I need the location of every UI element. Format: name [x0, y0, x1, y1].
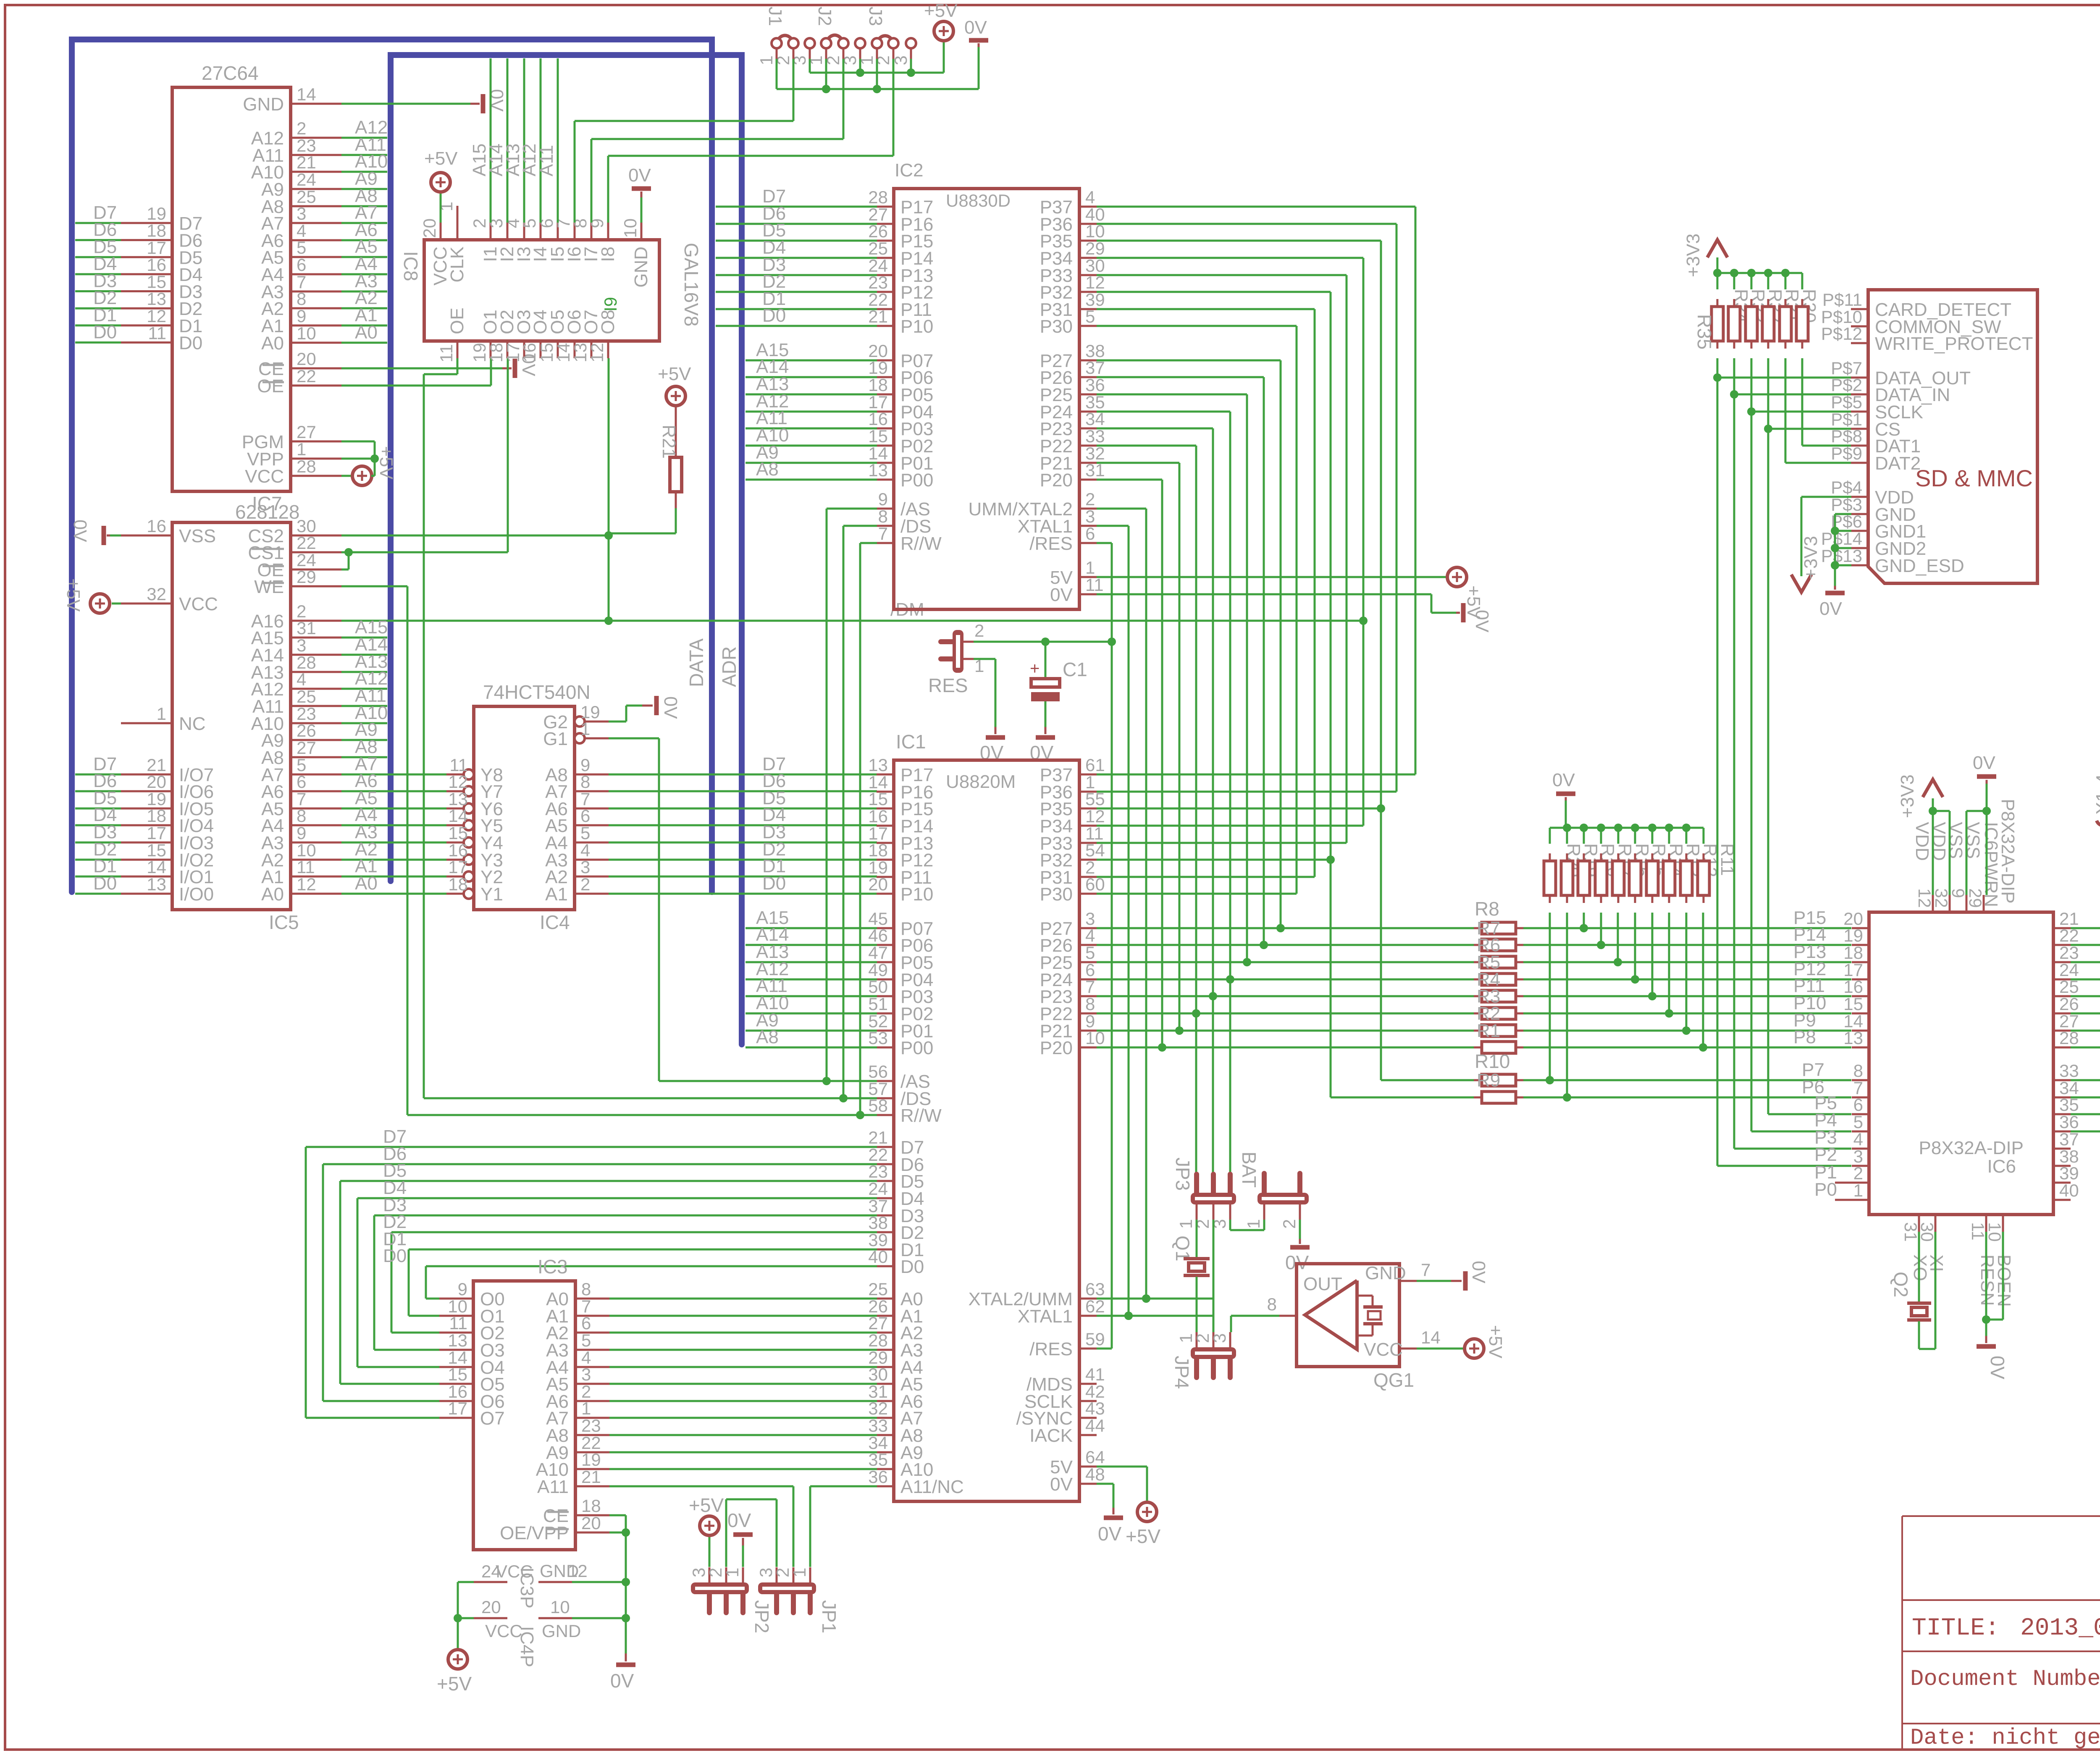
svg-text:SD & MMC: SD & MMC — [1915, 465, 2033, 491]
svg-text:9: 9 — [458, 1279, 467, 1299]
resistor pack R10 (R9) — [1474, 1050, 1523, 1103]
svg-text:0V: 0V — [628, 165, 651, 186]
svg-text:I9: I9 — [601, 297, 620, 312]
svg-text:Document Number:: Document Number: — [1910, 1666, 2100, 1692]
svg-text:GND: GND — [542, 1621, 581, 1641]
svg-text:11: 11 — [1968, 1222, 1988, 1241]
svg-text:25: 25 — [297, 687, 316, 706]
svg-text:BAT: BAT — [1238, 1152, 1260, 1188]
svg-text:0V: 0V — [1050, 1474, 1073, 1495]
svg-text:IC5: IC5 — [269, 911, 299, 933]
wire IC5 CS2 to IC8 O8 net — [341, 531, 613, 540]
svg-text:A1: A1 — [545, 884, 568, 905]
svg-text:IC1: IC1 — [896, 731, 926, 753]
IC6 top pins — [1912, 799, 2018, 912]
svg-text:IC3: IC3 — [538, 1256, 568, 1278]
svg-text:13: 13 — [868, 755, 888, 775]
crystal Q1 — [1172, 1220, 1210, 1332]
IC IC8 GAL16V8 box — [400, 240, 702, 341]
IC7 CE wire to 0V — [341, 354, 539, 378]
supply +3V3 arrow R35 — [1683, 234, 1727, 277]
wire BAT.2 to 0V — [1285, 1220, 1310, 1273]
resistor pack R35 (R34-R30) — [1693, 269, 1819, 349]
svg-text:D0: D0 — [762, 305, 786, 326]
svg-text:18: 18 — [1843, 943, 1863, 963]
svg-text:59: 59 — [1085, 1329, 1105, 1349]
J 0V rail row — [777, 17, 988, 93]
svg-text:RES: RES — [928, 674, 968, 696]
wire JP1.1 to IC1 A11/NC — [810, 1486, 877, 1567]
svg-text:A0: A0 — [261, 333, 284, 354]
svg-text:R8: R8 — [1475, 898, 1499, 920]
wires P7 P6 rows to IC6 — [1331, 1060, 1851, 1102]
svg-text:P20: P20 — [1040, 1038, 1073, 1058]
svg-text:JP1: JP1 — [818, 1600, 840, 1633]
svg-text:10: 10 — [550, 1597, 570, 1617]
svg-text:6: 6 — [1085, 524, 1095, 543]
svg-text:20: 20 — [481, 1597, 501, 1617]
svg-text:3: 3 — [297, 635, 306, 655]
svg-text:0V: 0V — [70, 520, 90, 542]
connector SD & MMC box — [1868, 290, 2037, 583]
svg-text:1: 1 — [1085, 558, 1095, 577]
svg-text:J3: J3 — [865, 7, 886, 26]
wires IC4 A8-A1 to IC1 P17-P10 (D7-D0) — [609, 754, 877, 894]
wire IC8 I8 to J3.2 — [608, 156, 893, 223]
svg-text:P8X32A-DIP: P8X32A-DIP — [1998, 799, 2018, 903]
svg-text:20: 20 — [868, 874, 888, 894]
wire QG1 OUT to JP4.3 — [1231, 1316, 1279, 1332]
svg-text:30: 30 — [1917, 1222, 1937, 1242]
svg-text:3: 3 — [580, 857, 590, 877]
IC5 right pins — [248, 516, 342, 905]
IC6 left pins — [1843, 909, 1869, 1200]
svg-text:P$12: P$12 — [1821, 324, 1862, 344]
svg-text:17: 17 — [448, 857, 468, 877]
IC4 G1 wire to /AS net — [609, 738, 659, 1081]
bus DATA — [72, 39, 712, 892]
svg-text:28: 28 — [868, 187, 888, 207]
IC6 right pins — [2053, 909, 2079, 1200]
svg-text:WE: WE — [254, 577, 284, 597]
svg-text:9: 9 — [297, 823, 306, 843]
svg-text:7: 7 — [1421, 1260, 1431, 1280]
svg-text:+5V: +5V — [424, 148, 458, 169]
svg-text:R10: R10 — [1475, 1050, 1510, 1072]
wire IC8 O8 vertical to /DM — [608, 358, 610, 621]
QG1 GND wire to 0V — [1399, 1260, 1489, 1291]
wire IC8 I7 to J2.2 — [591, 139, 843, 223]
svg-text:O8: O8 — [598, 310, 618, 334]
svg-text:VCC: VCC — [179, 594, 218, 614]
svg-text:1: 1 — [580, 719, 590, 739]
svg-text:P00: P00 — [900, 470, 933, 491]
jumper BAT — [1238, 1152, 1309, 1229]
svg-text:23: 23 — [581, 1416, 601, 1435]
svg-text:16: 16 — [520, 343, 539, 362]
svg-text:33: 33 — [2059, 1061, 2079, 1081]
wire JP2.2 to JP1.3 — [726, 1499, 777, 1567]
wires IC2 A15-A8 from ADR bus — [745, 340, 877, 480]
svg-text:J1: J1 — [765, 7, 785, 26]
svg-text:6: 6 — [297, 772, 306, 792]
svg-text:22: 22 — [297, 366, 316, 386]
svg-text:+5V: +5V — [924, 0, 958, 21]
svg-text:10: 10 — [1985, 1222, 2005, 1242]
wire IC1 XTAL1 row — [1097, 1312, 1213, 1320]
svg-text:18: 18 — [868, 840, 888, 860]
IC3 left pins O0-O7 — [439, 1279, 505, 1429]
svg-text:0V: 0V — [1552, 770, 1575, 790]
svg-text:1: 1 — [790, 1568, 809, 1577]
svg-text:4: 4 — [1085, 187, 1095, 207]
svg-text:G1: G1 — [543, 729, 568, 749]
svg-text:A0: A0 — [355, 322, 378, 343]
svg-text:1: 1 — [297, 439, 306, 459]
IC IC2 U8830D box — [894, 160, 1079, 609]
svg-text:J2: J2 — [814, 7, 835, 26]
wires IC5 A15-A8 to ADR bus — [341, 617, 388, 757]
svg-text:13: 13 — [1843, 1028, 1863, 1048]
svg-text:IC4: IC4 — [540, 911, 570, 933]
IC3 right pins — [500, 1279, 609, 1543]
svg-text:56: 56 — [868, 1062, 888, 1081]
svg-text:5: 5 — [1853, 1112, 1863, 1132]
SD pins — [1821, 290, 2033, 576]
svg-text:7: 7 — [1085, 977, 1095, 997]
svg-text:24: 24 — [297, 170, 316, 189]
power pins IC3P — [474, 1561, 588, 1608]
svg-text:21: 21 — [297, 152, 316, 172]
svg-text:VSS: VSS — [179, 526, 216, 546]
svg-text:D0: D0 — [900, 1257, 924, 1277]
svg-text:/RES: /RES — [1029, 533, 1073, 554]
svg-text:P$9: P$9 — [1831, 443, 1862, 463]
svg-text:ADR: ADR — [718, 646, 740, 687]
wire IC8 I6 to J1.2 — [575, 121, 793, 223]
svg-text:P$4: P$4 — [1831, 478, 1862, 497]
svg-text:19: 19 — [581, 1450, 601, 1469]
svg-text:VCC: VCC — [245, 466, 284, 487]
svg-text:D0: D0 — [93, 873, 117, 894]
svg-text:0V: 0V — [964, 17, 987, 38]
svg-text:0V: 0V — [1987, 1356, 2008, 1380]
SD GND wires to 0V — [1819, 514, 1851, 619]
svg-text:7: 7 — [878, 524, 888, 543]
svg-text:10: 10 — [620, 218, 640, 238]
svg-text:R21: R21 — [659, 425, 679, 459]
svg-text:13: 13 — [448, 1330, 467, 1350]
svg-text:12: 12 — [297, 874, 316, 894]
svg-text:0V: 0V — [1472, 610, 1492, 632]
SD VDD wire to +3V3 down-arrow — [1791, 497, 1851, 592]
svg-text:+3V3: +3V3 — [1897, 774, 1918, 818]
IC2 0V wire to 0V — [1097, 594, 1492, 632]
title block — [1902, 1516, 2100, 1751]
svg-text:8: 8 — [1085, 994, 1095, 1014]
wire JP3.2 to JP4.2 — [1213, 1220, 1215, 1332]
wire IC5 CS1 to IC8 O2 — [341, 358, 508, 569]
svg-text:12: 12 — [1085, 806, 1105, 826]
jumper JP3 — [1172, 1157, 1236, 1229]
svg-text:1: 1 — [436, 202, 456, 211]
IC IC4 74HCT540N box — [474, 681, 591, 933]
oscillator QG1 — [1267, 1263, 1415, 1391]
wire IC5 OE tie — [341, 569, 349, 571]
svg-text:0V: 0V — [1819, 598, 1842, 619]
svg-text:+5V: +5V — [376, 446, 396, 480]
svg-text:16: 16 — [868, 806, 888, 826]
J +5V rail row — [810, 0, 958, 77]
IC7 GND wire to 0V — [341, 89, 507, 113]
svg-text:I8: I8 — [598, 247, 618, 262]
svg-text:DAT2: DAT2 — [1875, 453, 1921, 474]
svg-text:P30: P30 — [1040, 884, 1073, 905]
svg-text:GND: GND — [631, 247, 651, 288]
R11 pack top corner — [1703, 828, 1705, 844]
svg-text:P00: P00 — [900, 1038, 933, 1058]
svg-text:+: + — [1030, 659, 1039, 678]
svg-text:U8830D: U8830D — [946, 191, 1011, 210]
svg-text:0V: 0V — [1973, 753, 1995, 773]
svg-text:6: 6 — [1853, 1095, 1863, 1115]
wire JP2.1 to 0V — [727, 1509, 753, 1567]
svg-text:12: 12 — [568, 1561, 588, 1581]
wires IC1 D7-D0 to IC3 O7-O0 — [306, 1126, 877, 1418]
svg-text:17: 17 — [448, 1399, 467, 1418]
wires IC1 A15-A8 from ADR bus — [745, 908, 877, 1047]
svg-text:27: 27 — [297, 738, 316, 758]
svg-text:2: 2 — [1085, 489, 1095, 509]
IC2 fan P37-P30 to IC1 — [1097, 207, 1415, 1097]
svg-text:A11: A11 — [536, 145, 557, 176]
connector pins X1-4..X1-15 — [2092, 763, 2100, 842]
svg-text:IC8: IC8 — [400, 251, 422, 281]
svg-text:0V: 0V — [486, 89, 507, 112]
svg-text:5: 5 — [297, 238, 306, 257]
svg-text:43: 43 — [1085, 1399, 1105, 1418]
resistor pack R11 (R20-R12) pulldowns — [1544, 770, 1738, 1097]
svg-text:+5V: +5V — [437, 1673, 472, 1695]
svg-text:CLK: CLK — [447, 247, 467, 283]
wire JP2.3 to +5V — [689, 1494, 724, 1567]
svg-text:Y1: Y1 — [480, 884, 503, 905]
svg-text:IC4P: IC4P — [517, 1626, 537, 1667]
svg-text:9: 9 — [878, 489, 888, 509]
wires IC3P IC4P VCC to +5V — [437, 1582, 474, 1695]
IC8 top pins — [420, 202, 651, 288]
wires IC2 D7-D0 from DATA bus — [716, 186, 877, 326]
IC8 GND wire to 0V — [628, 165, 651, 223]
IC8 I9 net label — [601, 297, 620, 312]
svg-text:P30: P30 — [1040, 316, 1073, 337]
svg-text:20: 20 — [147, 772, 166, 792]
IC6 RESN BOEN wires to 0V — [1977, 1232, 2008, 1380]
svg-text:DATA: DATA — [685, 638, 707, 687]
svg-text:O7: O7 — [480, 1408, 505, 1429]
IC IC7 27C64 box — [172, 62, 291, 514]
IC1 5V wire to +5V — [1097, 1467, 1160, 1547]
svg-text:9: 9 — [1948, 888, 1968, 898]
IC5 VCC wire to +5V — [63, 578, 121, 613]
svg-text:11: 11 — [297, 857, 315, 877]
svg-text:0V: 0V — [660, 696, 681, 719]
svg-text:+5V: +5V — [658, 364, 691, 384]
wires P15-P8 rows resistor to IC6 — [1097, 908, 1851, 1052]
svg-text:12: 12 — [448, 772, 468, 792]
svg-text:I/O0: I/O0 — [179, 884, 214, 905]
svg-text:40: 40 — [2059, 1181, 2079, 1200]
wires IC3P IC4P GND — [572, 1582, 626, 1618]
svg-text:0V: 0V — [610, 1670, 634, 1692]
wires IC7 D7-D0 to DATA bus — [75, 202, 121, 342]
svg-text:D0: D0 — [762, 873, 786, 894]
svg-text:63: 63 — [1085, 1279, 1105, 1299]
wires IC5 I/O7-I/O0 to DATA bus — [75, 754, 121, 894]
wire RES pin2 /RES net — [974, 638, 1112, 646]
svg-text:19: 19 — [1843, 926, 1863, 945]
svg-text:8: 8 — [297, 806, 306, 826]
jumper JP1 — [756, 1567, 840, 1633]
svg-text:P$8: P$8 — [1831, 426, 1862, 446]
jumper J1 — [756, 7, 815, 66]
IC2 /RES wire down — [1097, 543, 1116, 1349]
svg-text:8: 8 — [581, 1279, 591, 1299]
IC2 left pins — [868, 187, 942, 554]
svg-text:+5V: +5V — [689, 1494, 724, 1516]
svg-text:5: 5 — [520, 218, 539, 228]
svg-text:JP2: JP2 — [751, 1600, 773, 1633]
svg-text:44: 44 — [1085, 1416, 1105, 1435]
svg-text:Q2: Q2 — [1890, 1272, 1912, 1297]
IC2 XTAL1 wire down — [1097, 526, 1133, 1320]
svg-text:GAL16V8: GAL16V8 — [680, 243, 702, 326]
svg-text:5: 5 — [1085, 943, 1095, 963]
IC IC1 U8820M box — [894, 731, 1079, 1501]
jumper JP4 — [1171, 1332, 1236, 1389]
svg-text:P10: P10 — [900, 884, 933, 905]
svg-text:32: 32 — [147, 584, 166, 604]
svg-text:2: 2 — [1853, 1163, 1863, 1183]
svg-text:/RES: /RES — [1029, 1339, 1073, 1359]
svg-text:26: 26 — [297, 721, 316, 740]
svg-text:OE/VPP: OE/VPP — [500, 1523, 569, 1543]
IC5 VSS wire to 0V — [70, 520, 121, 545]
svg-text:28: 28 — [297, 457, 316, 476]
svg-text:14: 14 — [448, 806, 468, 826]
svg-text:OUT: OUT — [1303, 1274, 1342, 1294]
svg-text:74HCT540N: 74HCT540N — [483, 681, 591, 703]
jumper RES — [928, 621, 984, 696]
IC7 left pins D7-D0 — [121, 204, 202, 353]
svg-text:8: 8 — [1853, 1061, 1863, 1081]
IC4 left pins Y8-Y1 — [446, 755, 503, 905]
jumper J2 — [806, 7, 865, 66]
svg-text:15: 15 — [448, 1364, 467, 1384]
jumper J3 — [857, 7, 916, 66]
svg-text:P10: P10 — [900, 316, 933, 337]
svg-text:P0: P0 — [1814, 1179, 1837, 1200]
IC8 VCC wire to +5V — [424, 148, 458, 223]
svg-text:11: 11 — [436, 344, 456, 362]
svg-text:0V: 0V — [1468, 1261, 1489, 1283]
svg-text:0V: 0V — [727, 1509, 751, 1531]
svg-text:5: 5 — [1085, 307, 1095, 326]
IC6 bottom pins — [1901, 1215, 2014, 1307]
svg-text:IC2: IC2 — [895, 160, 923, 181]
svg-text:6: 6 — [581, 1313, 591, 1333]
wires IC5 A7-A0 to IC4 — [341, 754, 446, 894]
svg-text:21: 21 — [581, 1467, 601, 1487]
svg-text:4: 4 — [297, 669, 306, 689]
IC6 P1 P0 stubs — [1814, 1162, 1869, 1200]
svg-text:54: 54 — [1085, 840, 1105, 860]
IC IC3 box — [473, 1256, 575, 1550]
wire A11 row to JP1 — [609, 1486, 793, 1567]
svg-text:22: 22 — [297, 533, 316, 553]
svg-text:18: 18 — [581, 1496, 601, 1516]
wire IC1 XTAL2 row — [1097, 1294, 1213, 1303]
svg-text:QG1: QG1 — [1373, 1369, 1414, 1391]
IC2 fan P27-P20 to IC1 — [1097, 360, 1285, 1179]
svg-text:6: 6 — [580, 806, 590, 826]
svg-text:+5V: +5V — [1485, 1325, 1506, 1359]
wires IC7 A12-A0 to ADR bus — [341, 117, 388, 343]
svg-text:10: 10 — [297, 323, 316, 343]
wires IC7 PGM/VPP/VCC to +5V — [341, 441, 396, 485]
svg-text:14: 14 — [297, 84, 316, 104]
svg-text:13: 13 — [147, 874, 166, 894]
svg-text:8: 8 — [580, 772, 590, 792]
svg-text:P$11: P$11 — [1822, 290, 1862, 310]
svg-text:0V: 0V — [1050, 585, 1073, 605]
IC4 G2 wire to 0V — [609, 696, 681, 722]
svg-text:11: 11 — [449, 1313, 467, 1333]
svg-text:9: 9 — [587, 218, 607, 228]
svg-text:2: 2 — [1279, 1219, 1299, 1229]
svg-text:GND: GND — [243, 94, 284, 115]
svg-text:1: 1 — [1244, 1219, 1263, 1229]
svg-text:12: 12 — [587, 343, 607, 362]
svg-text:4: 4 — [1085, 926, 1095, 945]
svg-text:TITLE:: TITLE: — [1912, 1615, 2000, 1642]
svg-text:A8: A8 — [756, 459, 779, 480]
IC IC5 628128 box — [172, 501, 300, 933]
wires IC8 I1-I5 to ADR bus with labels — [469, 58, 558, 223]
IC1 right pins — [968, 755, 1105, 1495]
wire IC5 WE to R//W net — [341, 586, 407, 1115]
svg-text:5: 5 — [580, 823, 590, 843]
svg-text:GND_ESD: GND_ESD — [1875, 556, 1964, 576]
svg-text:15: 15 — [868, 789, 888, 809]
svg-text:14: 14 — [147, 857, 166, 877]
resistor pack R8 (R7-R1) — [1474, 898, 1523, 1053]
svg-text:OE: OE — [257, 376, 284, 396]
svg-text:15: 15 — [448, 823, 468, 843]
svg-text:12: 12 — [1915, 888, 1935, 908]
svg-text:2013_01: 2013_01 — [2020, 1615, 2100, 1642]
svg-text:2: 2 — [297, 118, 306, 138]
svg-text:55: 55 — [1085, 789, 1105, 809]
svg-text:2: 2 — [580, 874, 590, 894]
wire /DM net (IC5 A16) — [341, 599, 1368, 625]
svg-text:21: 21 — [868, 1128, 888, 1147]
svg-text:31: 31 — [297, 618, 316, 638]
svg-text:8: 8 — [1267, 1294, 1277, 1314]
IC IC6 P8X32A-DIP box — [1869, 912, 2053, 1215]
svg-text:NC: NC — [179, 714, 206, 734]
IC7 right pins — [242, 84, 342, 487]
